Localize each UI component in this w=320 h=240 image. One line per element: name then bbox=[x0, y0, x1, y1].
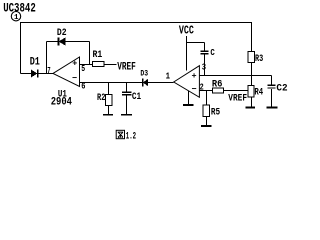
svg-text:1: 1 bbox=[14, 14, 19, 22]
svg-text:R2: R2 bbox=[97, 92, 105, 104]
ground R2 bbox=[103, 114, 113, 116]
resistor R2 bbox=[105, 95, 112, 106]
wire: VCC line and branch to C bbox=[187, 36, 205, 75]
svg-text:R1: R1 bbox=[93, 49, 103, 61]
diode D3 (pointing left) bbox=[143, 79, 148, 87]
svg-text:1: 1 bbox=[166, 71, 171, 81]
svg-text:−: − bbox=[72, 73, 77, 83]
svg-text:VREF: VREF bbox=[117, 61, 136, 73]
svg-text:UC3842: UC3842 bbox=[3, 1, 36, 15]
svg-text:5: 5 bbox=[81, 64, 85, 74]
wire: feedback loop top rail bbox=[47, 41, 90, 43]
svg-text:R3: R3 bbox=[255, 53, 263, 64]
wire: R3 bottom to junction to R4 top bbox=[251, 63, 253, 86]
wire: feedback loop left vertical bbox=[46, 42, 48, 74]
diode D2 (pointing left) bbox=[59, 37, 66, 45]
svg-text:C1: C1 bbox=[132, 91, 141, 103]
svg-text:R4: R4 bbox=[254, 87, 263, 98]
svg-text:C2: C2 bbox=[276, 83, 287, 95]
wire: U2 ground stub bbox=[187, 91, 189, 104]
wire: C2 drops bbox=[271, 76, 273, 107]
capacitor C1 bbox=[122, 92, 131, 95]
ground C2 bbox=[267, 106, 278, 108]
wire: pin1 node to top rail and down right to R3 bbox=[21, 23, 252, 74]
capacitor C bbox=[200, 51, 208, 54]
svg-text:3: 3 bbox=[202, 63, 206, 73]
wire: C1 drop bbox=[126, 83, 128, 114]
svg-text:VCC: VCC bbox=[179, 24, 194, 38]
resistor R4 bbox=[248, 85, 254, 97]
op-amp U2 bbox=[174, 66, 200, 98]
resistor R6 bbox=[213, 88, 224, 93]
svg-text:D1: D1 bbox=[30, 56, 41, 68]
ground C1 bbox=[121, 114, 132, 116]
svg-text:R6: R6 bbox=[212, 79, 223, 90]
capacitor C2 bbox=[268, 85, 276, 88]
resistor R1 bbox=[92, 62, 104, 67]
node circle pin1 UC3842 bbox=[11, 12, 20, 21]
wire: R2 drop bbox=[108, 83, 110, 114]
wire: into D1 and U1 output bbox=[21, 73, 54, 75]
svg-text:VREF: VREF bbox=[228, 93, 247, 104]
svg-text:2: 2 bbox=[200, 83, 204, 93]
svg-text:+: + bbox=[191, 71, 196, 81]
ground U2 bbox=[183, 104, 193, 106]
svg-text:6: 6 bbox=[81, 81, 85, 91]
wire: pin2 to R6 to R4 bbox=[199, 90, 248, 92]
wire: pin5 to R1 to VREF bbox=[80, 64, 117, 66]
diode D1 bbox=[31, 69, 38, 77]
svg-text:−: − bbox=[191, 84, 196, 94]
ground R4 bbox=[245, 106, 255, 108]
svg-text:C: C bbox=[210, 47, 215, 58]
wire: R5 drop bbox=[205, 91, 207, 126]
resistor R5 bbox=[203, 105, 209, 117]
op-amp U1 bbox=[53, 57, 80, 87]
svg-text:2904: 2904 bbox=[51, 97, 73, 109]
ground R5 bbox=[201, 125, 212, 127]
caption 图1.2 bbox=[116, 130, 124, 138]
svg-text:D2: D2 bbox=[57, 28, 67, 39]
resistor R3 bbox=[248, 52, 254, 63]
svg-text:R5: R5 bbox=[211, 108, 220, 119]
svg-text:+: + bbox=[72, 59, 77, 69]
svg-text:1.2: 1.2 bbox=[126, 131, 136, 142]
svg-text:7: 7 bbox=[47, 66, 50, 76]
wire: pin6 rail to U2 output bbox=[80, 82, 174, 84]
svg-text:D3: D3 bbox=[140, 69, 148, 79]
wire: feedback loop right vertical bbox=[89, 42, 91, 65]
wire: pin3 junction rail to C2 bbox=[199, 75, 271, 77]
wire: R4 bottom to ground bbox=[251, 97, 253, 106]
